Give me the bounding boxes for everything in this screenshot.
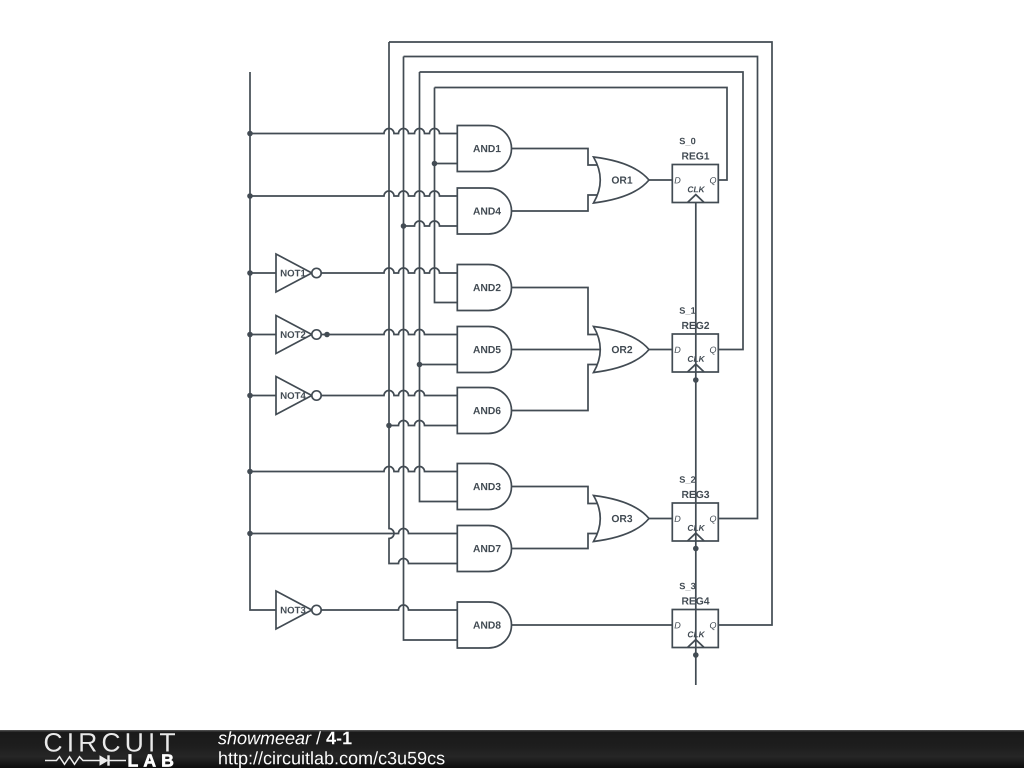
junction: rail to AND3 row — [247, 469, 253, 475]
AND gate AND5 — [457, 327, 511, 373]
AND gate AND2 — [457, 265, 511, 311]
AND gate AND6 — [457, 388, 511, 434]
D flip-flop REG2 (S_1) — [672, 307, 718, 372]
wire: AND6 out to OR2 in3 — [512, 365, 602, 411]
wire: AND3 out to OR3 in1 — [512, 487, 602, 504]
wire: S_2 loop REG3.Q top feedback — [404, 57, 758, 519]
wire: AND7 out to OR3 in2 — [512, 534, 602, 549]
wire: OR3 out to REG3 D — [649, 518, 672, 520]
wire: S_3 loop REG4.Q top feedback — [389, 42, 772, 625]
wire: S_1 branch to AND5 in2 — [420, 364, 458, 366]
junction: rail to NOT4 — [247, 393, 253, 399]
footer bar — [0, 730, 1024, 768]
wire: S_3 feedback drop (vertical hop over AND7 row) to AND7 in2 (hop over S_2) — [389, 42, 457, 564]
wire: left input rail with branch to NOT3 — [250, 72, 276, 610]
wire: NOT3 output to AND8 in1 (hop over S_2) — [321, 605, 457, 610]
NOT gate NOT4 — [276, 377, 321, 415]
AND gate AND4 — [457, 188, 511, 234]
junction: S_0 to AND1 in2 — [432, 161, 438, 167]
wire: clock chain from REG1 CLK down through REG2, REG3 to REG4 CLK stub — [695, 203, 697, 686]
wire: AND5 out to OR2 in2 — [512, 349, 602, 351]
wire: AND2 out to OR2 in1 — [512, 288, 602, 335]
AND gate AND7 — [457, 526, 511, 572]
AND gate AND1 — [457, 126, 511, 172]
wire: input row to AND4 in1 (hops over S_3,S_2,S_1,S_0) — [250, 191, 457, 196]
NOT gate NOT3 — [276, 591, 321, 629]
NOT gate NOT1 — [276, 254, 321, 292]
wire: input row to AND3 in1 (hops over S_3,S_2,S_1) — [250, 467, 457, 472]
OR gate OR2 — [594, 327, 650, 373]
wire: NOT4 output to AND6 in1 — [321, 391, 457, 396]
wire: S_2 feedback drop to AND8 in2 — [404, 57, 458, 641]
junction: clock at REG3 CLK pin — [693, 546, 699, 552]
wire: OR2 out to REG2 D — [649, 349, 672, 351]
junction: S_2 to AND4 in2 — [401, 223, 407, 229]
junction: clock at REG2 CLK pin — [693, 377, 699, 383]
wire: input row to AND7 in1 (hop over S_2) — [250, 529, 457, 534]
junction: rail to AND4 row — [247, 193, 253, 199]
NOT gate NOT2 — [276, 316, 321, 354]
wire: S_2 branch to AND4 in2 (hops over S_1,S_0) — [404, 221, 458, 226]
D flip-flop REG3 (S_2) — [672, 476, 718, 541]
wire: S_0 loop REG1.Q top feedback — [435, 88, 728, 181]
wire: rail to NOT2 input — [250, 334, 276, 336]
schematic url — [219, 751, 444, 768]
wire: AND4 out to OR1 in2 — [512, 195, 602, 211]
wire: OR1 out to REG1 D — [649, 179, 672, 181]
junction: rail to NOT1 — [247, 270, 253, 276]
wire: input row to AND1 in1 (hops over S_3,S_2,S_1,S_0) — [250, 129, 457, 134]
schematic author / title — [218, 731, 312, 744]
wire: rail to NOT4 input — [250, 395, 276, 397]
D flip-flop REG4 (S_3) — [672, 583, 718, 648]
wire: NOT2 output to AND5 in1 — [321, 330, 457, 335]
AND gate AND3 — [457, 464, 511, 510]
CircuitLab logo text LAB — [129, 755, 173, 767]
junction: rail to AND7 row — [247, 531, 253, 537]
D flip-flop REG1 (S_0) — [672, 138, 718, 203]
wire: AND1 out to OR1 in1 — [512, 149, 602, 166]
junction: clock at REG4 CLK pin — [693, 652, 699, 658]
OR gate OR3 — [594, 496, 650, 542]
junction: NOT2 output node — [324, 332, 330, 338]
wire: AND8 out to REG4 D input — [512, 624, 673, 626]
OR gate OR1 — [594, 157, 650, 203]
AND gate AND8 — [457, 602, 511, 648]
junction: rail to AND1 row — [247, 131, 253, 137]
wire: S_3 branch to AND6 in2 (hops over S_2,S_1) — [389, 421, 457, 426]
wire: S_1 feedback drop to AND3 in2 — [420, 72, 458, 502]
wire: rail to NOT1 input — [250, 272, 276, 274]
junction: rail to NOT2 — [247, 332, 253, 338]
CircuitLab logo text CIRCUIT — [45, 733, 175, 752]
wire: NOT1 output to AND2 in1 — [321, 268, 457, 273]
wire: S_1 loop REG2.Q top feedback — [420, 72, 744, 350]
wire: S_0 branch to AND1 in2 — [435, 163, 458, 165]
junction: S_3 to AND6 in2 — [386, 423, 392, 429]
CircuitLab logo resistor-diode glyph — [45, 755, 126, 765]
junction: S_1 to AND5 in2 — [417, 362, 423, 368]
wire: S_0 feedback drop to AND2 in2 — [435, 88, 458, 303]
